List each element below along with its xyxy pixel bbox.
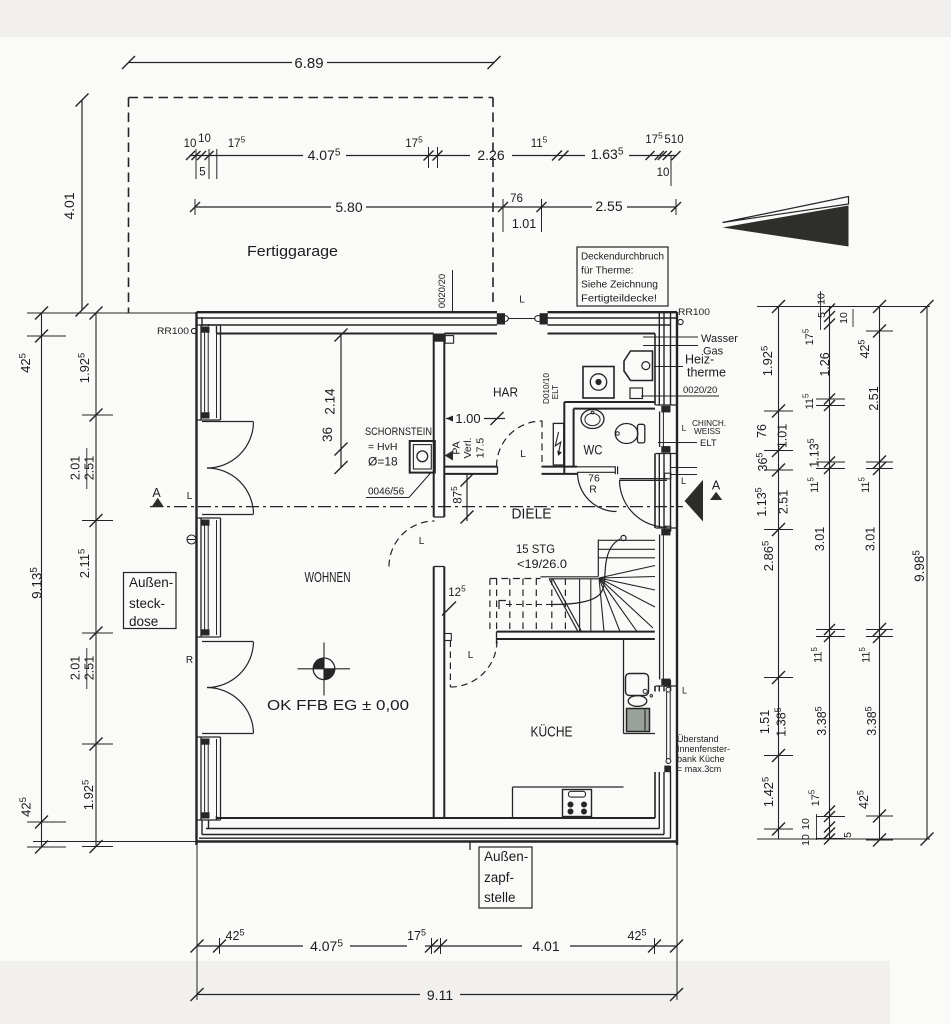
svg-text:ELT: ELT <box>700 438 717 449</box>
WC top wall <box>564 401 655 403</box>
svg-text:Außen-: Außen- <box>129 575 173 590</box>
svg-text:Fertigteildecke!: Fertigteildecke! <box>581 294 657 305</box>
svg-text:76: 76 <box>755 424 769 438</box>
svg-text:2.51: 2.51 <box>83 656 97 680</box>
dim 1.00 HAR door <box>446 418 452 420</box>
staircase bottom wall <box>497 631 655 633</box>
washing machine <box>583 367 614 399</box>
dim chain right 2 window openings <box>829 307 831 840</box>
svg-text:A: A <box>152 486 161 500</box>
kitchen counter right with sink <box>623 640 625 734</box>
window left 3 <box>197 736 221 738</box>
kitchen appliance gray <box>627 709 650 732</box>
walking line with start hook and end circle <box>499 601 506 610</box>
leader Gas <box>643 345 698 347</box>
second level 10 top <box>852 309 854 327</box>
right exterior wall outer face <box>676 312 678 845</box>
svg-text:WOHNEN: WOHNEN <box>305 569 351 586</box>
niche box below top wall <box>445 336 453 344</box>
right exterior wall inner lines <box>670 312 672 405</box>
svg-text:ELT: ELT <box>551 385 560 399</box>
svg-text:KÜCHE: KÜCHE <box>531 723 573 741</box>
Aussensteckdose outlet symbol <box>187 535 196 544</box>
svg-text:1.26: 1.26 <box>818 352 832 376</box>
therme connection box <box>630 388 643 399</box>
label Heiz-therme <box>654 366 683 368</box>
kitchen sink drainer oval <box>628 696 647 707</box>
svg-text:RR100: RR100 <box>678 307 710 318</box>
dim chain right 1 room depths <box>778 307 780 840</box>
svg-text:bank Küche: bank Küche <box>677 754 725 764</box>
svg-text:SCHORNSTEIN: SCHORNSTEIN <box>365 426 432 438</box>
svg-text:2.51: 2.51 <box>83 456 97 480</box>
interior wall living/hall upper <box>433 334 435 518</box>
WC left wall <box>563 402 565 474</box>
svg-text:10: 10 <box>184 138 197 150</box>
svg-text:17.5: 17.5 <box>475 438 487 459</box>
svg-text:1.01: 1.01 <box>776 424 790 448</box>
svg-text:10: 10 <box>800 834 812 846</box>
living room door dashed arc <box>389 521 435 567</box>
svg-text:10: 10 <box>657 167 670 179</box>
dim 87.5 vertical in DIELE <box>466 475 468 522</box>
svg-text:Außen-: Außen- <box>484 849 528 864</box>
bottom dim chain widths <box>197 945 303 947</box>
svg-text:<19/26.0: <19/26.0 <box>517 557 567 571</box>
stair winder fan treads <box>599 566 655 579</box>
svg-text:A: A <box>712 479 721 493</box>
svg-text:L: L <box>520 449 526 460</box>
wall piece between HAR door and WC <box>542 466 578 468</box>
hall closet stub wall <box>444 466 497 468</box>
svg-text:510: 510 <box>664 134 683 146</box>
scanner edge band top <box>0 0 951 37</box>
staircase boundary <box>597 540 599 577</box>
north arrow outline sliver <box>723 197 849 223</box>
svg-text:4.01: 4.01 <box>61 192 77 219</box>
svg-text:5: 5 <box>842 832 854 838</box>
svg-text:3.01: 3.01 <box>864 527 878 551</box>
stair treads upper flight <box>598 548 655 550</box>
chimney Schornstein <box>410 441 435 473</box>
callout box Aussensteckdose <box>124 573 177 629</box>
svg-text:10: 10 <box>800 818 812 830</box>
svg-text:0020/20: 0020/20 <box>683 385 717 396</box>
svg-text:2.14: 2.14 <box>323 388 338 415</box>
entrance door jamb blocks <box>497 313 505 324</box>
toilet <box>615 424 638 444</box>
svg-text:Fertiggarage: Fertiggarage <box>247 243 338 260</box>
kitchen stove <box>563 790 592 817</box>
svg-text:L: L <box>468 650 474 661</box>
svg-text:2.01: 2.01 <box>69 656 83 680</box>
hall to kitchen-area door arc <box>620 480 667 527</box>
svg-text:5.80: 5.80 <box>335 199 362 215</box>
dim 6.89 garage width <box>129 62 293 64</box>
svg-text:3.01: 3.01 <box>813 527 827 551</box>
svg-text:2.55: 2.55 <box>595 198 622 214</box>
window right staircase <box>656 527 677 529</box>
callout box Aussenzapfstelle <box>479 847 532 908</box>
dim 4.01 garage depth <box>81 100 83 310</box>
dim chain left outer 42.5/9.135/42.5 <box>41 313 43 847</box>
svg-text:= HvH: = HvH <box>368 441 397 453</box>
leader Wasser <box>643 336 698 338</box>
svg-text:R: R <box>186 655 193 666</box>
svg-text:1.51: 1.51 <box>758 710 772 734</box>
gas boiler Heiztherme <box>624 351 653 381</box>
hall door to HAR dashed arc <box>497 421 543 467</box>
top exterior wall <box>197 311 498 313</box>
kitchen door dashed arc <box>450 640 497 687</box>
svg-text:L: L <box>681 476 686 486</box>
svg-text:L: L <box>419 536 425 547</box>
svg-text:1.01: 1.01 <box>512 217 536 231</box>
svg-text:L: L <box>682 686 687 696</box>
dim chain right 4 total depth <box>926 307 928 840</box>
svg-text:15 STG: 15 STG <box>516 542 555 556</box>
svg-text:WEISS: WEISS <box>694 427 721 436</box>
WC door swing arc <box>578 473 617 512</box>
wall junction block at top <box>434 334 445 342</box>
left exterior wall inner lines <box>201 317 203 326</box>
svg-text:L: L <box>519 295 525 306</box>
svg-text:5: 5 <box>199 167 205 179</box>
svg-text:Wasser: Wasser <box>701 333 738 345</box>
svg-text:0046/56: 0046/56 <box>368 487 405 498</box>
window right WC <box>656 404 677 406</box>
dim chain left inner room heights <box>95 313 97 847</box>
svg-text:76: 76 <box>510 193 523 205</box>
window left 2 <box>197 517 221 519</box>
svg-text:Ø=18: Ø=18 <box>368 455 398 469</box>
svg-text:9.11: 9.11 <box>427 987 453 1003</box>
zapfstelle tick <box>469 842 471 850</box>
arrow for PA duct <box>445 451 454 461</box>
sub tick 10 with witness line <box>670 156 672 186</box>
svg-text:Überstand: Überstand <box>677 734 719 744</box>
label ELT with leader <box>658 442 697 444</box>
kitchen counter bottom <box>513 786 624 788</box>
stair treads lower flight <box>579 579 581 632</box>
svg-text:stelle: stelle <box>484 890 516 905</box>
svg-text:D010/10: D010/10 <box>542 373 551 404</box>
svg-text:Siehe Zeichnung: Siehe Zeichnung <box>581 280 658 291</box>
svg-text:RR100: RR100 <box>157 326 189 337</box>
washbasin <box>581 410 604 429</box>
note box Deckendurchbruch fuer Therme <box>577 247 668 306</box>
window left 1 <box>197 324 221 326</box>
svg-text:36: 36 <box>320 427 335 442</box>
svg-text:Deckendurchbruch: Deckendurchbruch <box>581 252 664 263</box>
svg-text:Innenfenster-: Innenfenster- <box>677 744 730 754</box>
north arrow solid <box>723 206 849 247</box>
section line A-A <box>150 506 683 508</box>
svg-text:zapf-: zapf- <box>484 870 514 885</box>
svg-text:L: L <box>682 423 687 433</box>
garage top dim chain line A <box>190 155 304 157</box>
kitchen door dashed leaf <box>449 641 451 688</box>
svg-text:therme: therme <box>687 366 726 380</box>
svg-text:für Therme:: für Therme: <box>581 266 633 277</box>
svg-text:L: L <box>187 491 193 502</box>
casement balcony door left upper <box>202 421 254 423</box>
svg-text:OK FFB EG ± 0,00: OK FFB EG ± 0,00 <box>267 697 409 714</box>
svg-text:10: 10 <box>816 293 828 305</box>
svg-text:5: 5 <box>816 312 828 318</box>
svg-text:HAR: HAR <box>493 385 518 400</box>
svg-text:2.26: 2.26 <box>477 147 504 163</box>
extension lines right <box>757 306 930 308</box>
garage dim chain line B <box>195 206 331 208</box>
svg-text:2.01: 2.01 <box>69 456 83 480</box>
window right kitchen fixed glazing <box>664 680 671 687</box>
bottom dim total width 9.11 <box>197 994 420 996</box>
svg-text:4.01: 4.01 <box>532 938 559 954</box>
svg-text:1.00: 1.00 <box>455 411 480 426</box>
svg-text:Verl.: Verl. <box>462 437 474 458</box>
svg-text:dose: dose <box>129 614 158 629</box>
electrical panel in hall <box>553 423 563 465</box>
kitchen door hinge box <box>444 634 451 641</box>
svg-text:= max.3cm: = max.3cm <box>677 764 721 774</box>
hall door to HAR dashed leaf <box>541 421 543 467</box>
dim chain right 3 window axes <box>879 307 881 841</box>
svg-text:10: 10 <box>838 312 850 324</box>
scanner edge band bottom left <box>0 961 890 1024</box>
right wall room face line <box>654 334 656 406</box>
svg-text:10: 10 <box>198 133 211 145</box>
svg-text:R: R <box>589 484 597 496</box>
WC door closed leaf 76 <box>577 466 615 468</box>
svg-text:6.89: 6.89 <box>294 55 323 72</box>
svg-text:2.51: 2.51 <box>867 386 881 410</box>
hall to kitchen-area door leaf <box>620 478 667 480</box>
dim 2.14 and 36 vertical <box>340 334 342 469</box>
svg-text:2.51: 2.51 <box>777 490 791 514</box>
extension lines left <box>33 312 196 314</box>
svg-text:0020/20: 0020/20 <box>437 274 448 308</box>
entrance door leaf and hinges <box>508 318 535 320</box>
svg-text:steck-: steck- <box>129 596 165 611</box>
section arrow right <box>685 480 703 522</box>
svg-text:DIELE: DIELE <box>512 507 552 523</box>
level benchmark symbol <box>313 658 335 680</box>
left exterior wall outer face <box>195 312 197 845</box>
garage dashed outline Fertiggarage <box>129 97 494 99</box>
bottom exterior wall <box>217 817 656 819</box>
bottom extension verticals <box>196 845 198 1000</box>
stair cut dashed treads <box>489 579 491 632</box>
casement balcony door left lower <box>202 641 254 643</box>
svg-text:WC: WC <box>584 443 603 458</box>
interior wall living/kitchen lower <box>433 567 435 819</box>
kitchen sink <box>626 674 649 696</box>
svg-text:Heiz-: Heiz- <box>685 353 714 367</box>
stair slope line pair <box>549 579 578 631</box>
